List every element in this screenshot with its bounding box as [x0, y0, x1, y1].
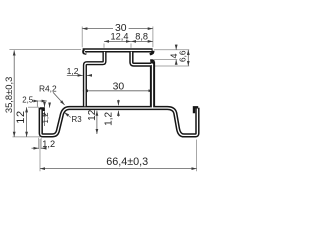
C channel upturn lip — [150, 61, 153, 62]
right leg hook — [194, 107, 198, 113]
left shelf plate2 + step wall w1 + box left wall — [85, 52, 105, 106]
dim 4 (outside arrows) — [175, 45, 177, 50]
leader R4,2 — [53, 92, 65, 105]
extension lines (light gray) — [9, 27, 196, 172]
svg-text:1,2: 1,2 — [41, 113, 50, 124]
svg-text:8,8: 8,8 — [135, 31, 148, 41]
dim 12,4 — [104, 40, 131, 42]
barb lip at roof right corner — [150, 51, 154, 54]
ext 4/6,6 top — [154, 49, 189, 51]
ext 1,2 leg stubs — [38, 138, 40, 149]
dim 12 left — [26, 107, 28, 137]
dim 30 middle — [83, 90, 154, 92]
hem white core — [84, 51, 86, 53]
svg-text:1,2: 1,2 — [103, 112, 114, 126]
left leg + bottom + ramps + mid plate + right leg — [41, 108, 198, 136]
under-roof C channel — [131, 52, 153, 65]
roof — [83, 48, 153, 52]
ext 30-top right / 8,8 right — [152, 27, 154, 48]
profile dark strokes — [41, 50, 198, 135]
dim 8,8 — [131, 40, 153, 42]
ext 35,8 top — [9, 49, 81, 51]
ext 12,4 left (w1) — [103, 44, 105, 48]
ext 6,6 bottom (C outer) — [154, 65, 189, 67]
ext 35,8 / 12 bottom — [13, 136, 41, 138]
dim 6,6 — [187, 50, 189, 66]
svg-text:12: 12 — [15, 110, 27, 123]
dim 1,2 leg wall — [32, 147, 39, 149]
ext 12 top (to leg cap) — [28, 106, 39, 108]
dim 66,4 — [40, 168, 197, 170]
roof left hem — [84, 50, 87, 53]
dim 30 top (split around text) — [82, 28, 113, 30]
dimension lines with arrows — [14, 29, 196, 169]
ext 12,4/8,8 shared (C-wall) — [130, 44, 132, 48]
dim 1,2 box-left wall — [67, 74, 83, 76]
leg hooks (thin, drawn over cores) — [40, 107, 199, 113]
dim 2,5 marks — [32, 100, 34, 102]
ext 30-top left — [81, 27, 83, 48]
ext 66,4 left — [39, 139, 41, 171]
svg-text:30: 30 — [113, 82, 125, 93]
dim 12 middle (mid plate to bottom level) — [96, 111, 98, 134]
svg-text:6,6: 6,6 — [178, 50, 187, 62]
svg-text:1,2: 1,2 — [67, 66, 79, 76]
leader R3 — [64, 112, 71, 117]
svg-text:12,4: 12,4 — [111, 31, 129, 41]
dim 35,8 — [13, 50, 15, 137]
svg-text:35,8±0,3: 35,8±0,3 — [3, 77, 14, 113]
ext 4 bottom (barb) — [154, 59, 177, 61]
ext 66,4 right — [196, 140, 198, 172]
left leg hook — [40, 108, 44, 111]
svg-text:R3: R3 — [72, 115, 83, 124]
box right wall (thicker) — [150, 62, 155, 108]
svg-text:1,2: 1,2 — [42, 139, 55, 149]
dim 1,2 cap (outside arrows) — [44, 103, 46, 107]
svg-text:66,4±0,3: 66,4±0,3 — [106, 156, 148, 168]
svg-text:R4,2: R4,2 — [39, 84, 57, 94]
svg-text:2,5: 2,5 — [22, 96, 34, 105]
dim 1,2 mid plate (outside arrows) — [117, 100, 119, 106]
svg-text:12: 12 — [87, 109, 98, 121]
profile white cores — [41, 50, 198, 135]
